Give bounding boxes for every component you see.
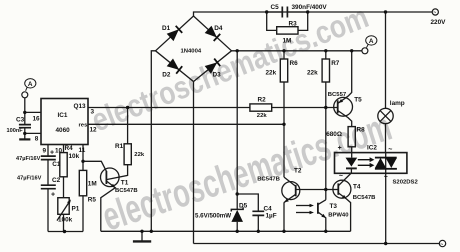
- svg-text:8: 8: [35, 135, 39, 142]
- wire T2 emitter: [284, 194, 296, 231]
- wire R4 to P1: [63, 177, 65, 198]
- resistor R2 box: [250, 104, 272, 111]
- transistor T1 circle: [101, 168, 120, 187]
- wire T4 collector to LED cathode: [338, 173, 351, 186]
- junction pin16 tap: [23, 111, 26, 114]
- svg-text:C5: C5: [271, 4, 280, 11]
- junction D5 branch on A-line: [236, 49, 239, 52]
- wire R7 top stub: [325, 51, 327, 59]
- svg-text:~: ~: [384, 174, 388, 181]
- wire T3 collector diagonal: [318, 200, 326, 205]
- svg-text:3: 3: [91, 108, 95, 115]
- IC2 coupling arrow 1: [358, 159, 371, 161]
- terminal mains bottom right: [439, 240, 445, 246]
- wire C4 branch: [237, 194, 258, 211]
- label A ellipse top-left: [25, 79, 36, 88]
- junction ground symbol tap: [140, 230, 143, 233]
- svg-text:C1: C1: [52, 161, 61, 168]
- IC2 box: [335, 153, 407, 174]
- wire pin9 to C1: [47, 145, 49, 157]
- arrowhead P1 wiper: [67, 199, 71, 204]
- svg-text:~: ~: [339, 173, 343, 180]
- resistor R1 box: [124, 144, 131, 165]
- arrowhead T4 emitter: [342, 195, 347, 199]
- arrowhead light arrow 1: [310, 204, 314, 207]
- zener D5 triangle: [231, 210, 243, 222]
- svg-text:16: 16: [33, 116, 41, 123]
- svg-text:T5: T5: [354, 97, 362, 104]
- wire bridge left vertex to down line: [151, 51, 155, 232]
- diode D3 triangle: [205, 62, 218, 73]
- watermark electroschematics.com lower: [97, 105, 397, 240]
- triac left triangle: [375, 158, 386, 168]
- svg-text:T4: T4: [353, 184, 361, 191]
- svg-text:22k: 22k: [257, 113, 268, 119]
- svg-text:390nF/400V: 390nF/400V: [292, 4, 328, 11]
- diode D2 triangle: [167, 59, 180, 70]
- junction D5 anode on rail: [236, 230, 239, 233]
- capacitor C2 plates: [41, 185, 56, 189]
- wire lamp top: [385, 12, 387, 108]
- svg-text:lamp: lamp: [390, 100, 405, 107]
- wire T4 base: [326, 189, 339, 191]
- svg-text:22k: 22k: [307, 70, 318, 77]
- junction T3 collector node: [324, 188, 327, 191]
- svg-text:1M: 1M: [283, 38, 292, 45]
- wire R6 top stub: [283, 51, 285, 59]
- wire line3 Q13 left segment: [88, 107, 250, 109]
- svg-text:4060: 4060: [56, 127, 71, 134]
- junction R7 bottom on line3: [324, 106, 327, 109]
- terminal A right circle: [362, 48, 368, 54]
- wire C5 right stub: [287, 11, 307, 13]
- arrowhead light arrow 2: [310, 211, 314, 214]
- ground bar under C3: [19, 138, 30, 140]
- arrowhead T2 emitter: [284, 199, 289, 203]
- capacitor C5 plates: [282, 7, 287, 18]
- diode D4 triangle: [205, 26, 217, 38]
- wire T1 base from R5 node: [83, 161, 106, 171]
- svg-text:res: res: [79, 122, 89, 128]
- wire A terminal stem top-left: [24, 98, 26, 125]
- svg-text:22k: 22k: [134, 152, 145, 158]
- svg-text:R3: R3: [289, 21, 298, 28]
- wire C5 left stub: [267, 11, 283, 13]
- svg-text:T3: T3: [330, 203, 338, 210]
- svg-text:D4: D4: [214, 25, 223, 32]
- svg-text:220V: 220V: [431, 19, 447, 26]
- wire lamp to IC2 triac: [385, 124, 387, 153]
- light arrow 2 into T3: [296, 212, 311, 214]
- diode D1 triangle: [167, 29, 179, 41]
- svg-text:47µF/16V: 47µF/16V: [16, 156, 41, 162]
- diode bridge diamond wires: [156, 16, 232, 82]
- svg-text:R1: R1: [115, 143, 124, 150]
- transistor T5 base bar: [337, 100, 339, 113]
- wire pin16: [25, 111, 41, 113]
- wire T3 emitter: [318, 212, 326, 231]
- junction C5 right on top rail: [306, 10, 309, 13]
- svg-text:47µF/16V: 47µF/16V: [17, 176, 42, 182]
- svg-text:BC557: BC557: [328, 92, 347, 98]
- svg-text:R6: R6: [290, 60, 299, 67]
- wire T2 collector diagonal: [284, 177, 296, 186]
- svg-text:12: 12: [90, 127, 98, 134]
- svg-text:5.6V/500mW: 5.6V/500mW: [195, 213, 231, 220]
- wire pin8: [25, 132, 41, 134]
- wire R3 parallel loop: [267, 12, 308, 30]
- junction R1 on line3: [126, 106, 129, 109]
- junction D5 cathode node: [236, 192, 239, 195]
- resistor R3 box: [277, 27, 298, 34]
- svg-text:9: 9: [43, 148, 47, 155]
- wire P1 bottom: [63, 214, 65, 231]
- svg-text:1N4004: 1N4004: [181, 48, 202, 54]
- lamp X: [380, 111, 391, 122]
- wire line4 res pin12: [88, 123, 284, 125]
- phototransistor T3 bar: [317, 203, 319, 214]
- IC2 LED cathode bar: [346, 167, 357, 169]
- wire C2 bottom to rail stub: [47, 189, 49, 232]
- ground symbol stem: [141, 231, 143, 240]
- wire R7 bottom to line3: [325, 82, 327, 108]
- svg-text:T2: T2: [294, 168, 302, 175]
- junction T2 emitter on rail: [282, 230, 285, 233]
- wire T4 emitter to rail end: [338, 193, 350, 231]
- label A ellipse right: [366, 36, 377, 45]
- svg-text:A: A: [369, 38, 374, 45]
- svg-text:~: ~: [433, 10, 436, 16]
- wire mains return bottom line: [194, 243, 440, 245]
- junction R7 on A-line: [324, 49, 327, 52]
- svg-text:10: 10: [55, 148, 63, 155]
- svg-text:C2: C2: [52, 177, 61, 184]
- wire pin11 down: [82, 145, 84, 171]
- wire line3 right segment to T5 base: [272, 107, 338, 109]
- wire T5 emitter up to A-line: [338, 51, 352, 104]
- junction P1 on ground stub: [63, 230, 66, 233]
- wire top rail: [194, 12, 433, 16]
- svg-text:1M: 1M: [88, 181, 97, 188]
- triac bottom bar: [375, 168, 397, 170]
- svg-text:T1: T1: [121, 180, 129, 187]
- svg-text:BC547B: BC547B: [115, 188, 138, 194]
- arrowhead T5 emitter (PNP into bar): [339, 99, 344, 103]
- triac right triangle: [386, 158, 397, 168]
- svg-text:Q13: Q13: [74, 103, 87, 110]
- svg-text:BPW40: BPW40: [328, 213, 349, 219]
- resistor R6 box: [280, 59, 287, 82]
- junction R6 on A-line: [282, 49, 285, 52]
- wire C4 bottom: [257, 216, 259, 232]
- svg-text:BC547B: BC547B: [353, 195, 376, 201]
- wire triac output down to mains line: [385, 173, 387, 243]
- terminal A top-left circle: [22, 92, 28, 98]
- wire T5 collector to R8: [338, 111, 352, 127]
- svg-text:C4: C4: [264, 206, 273, 213]
- wire R6 bottom to line4 and T2 collector: [283, 82, 285, 177]
- lamp circle: [378, 108, 393, 123]
- wire ground rail left stub: [48, 231, 83, 233]
- svg-text:~: ~: [388, 146, 392, 153]
- svg-text:IC2: IC2: [367, 144, 377, 151]
- IC1 box: [41, 99, 88, 145]
- svg-text:S202DS2: S202DS2: [393, 180, 419, 186]
- wire A-line right of bridge: [232, 50, 362, 52]
- junction pin8 tap: [23, 132, 26, 135]
- wire zener anode to ground rail: [236, 222, 238, 232]
- potentiometer P1 arrow line: [57, 201, 70, 221]
- svg-text:+: +: [51, 192, 55, 199]
- junction T1 base tap on pin11 wire: [81, 160, 84, 163]
- wire C1 to C2: [47, 160, 49, 186]
- transistor T1 base bar: [105, 171, 107, 184]
- svg-text:R5: R5: [88, 197, 97, 204]
- resistor R4 box: [60, 153, 67, 177]
- transistor T4 base bar: [337, 183, 339, 194]
- svg-text:D5: D5: [239, 203, 248, 210]
- resistor R5 box: [79, 170, 86, 195]
- transistor T4 circle: [333, 180, 351, 198]
- watermark electroschematics.com upper: [87, 0, 374, 139]
- svg-text:P1: P1: [72, 206, 80, 213]
- svg-text:1µF: 1µF: [266, 213, 277, 220]
- svg-text:100nF: 100nF: [7, 128, 24, 134]
- wire T1 emitter down: [101, 181, 116, 231]
- ground symbol bar: [133, 240, 151, 242]
- arrowhead T1 emitter: [111, 184, 116, 188]
- svg-text:BC547B: BC547B: [257, 177, 280, 183]
- wire C3 bottom stem: [24, 128, 26, 139]
- junction T3 emitter on rail: [324, 230, 327, 233]
- transistor T5 circle: [334, 97, 353, 116]
- transistor T2 base bar: [295, 185, 297, 196]
- wire LED cathode down: [350, 168, 352, 173]
- junction triac output on mains return: [384, 242, 387, 245]
- wire R5 bottom: [82, 196, 84, 232]
- svg-text:680Ω: 680Ω: [326, 131, 342, 138]
- arrowhead T3 emitter: [321, 214, 326, 218]
- wire triac vertical inside IC2: [385, 153, 387, 174]
- svg-text:100k: 100k: [58, 217, 73, 224]
- junction T5 emitter on A-line: [350, 49, 353, 52]
- wire D5 vertical from A-line: [236, 51, 238, 210]
- junction lamp branch on top rail: [384, 10, 387, 13]
- svg-text:11: 11: [79, 147, 86, 154]
- svg-text:R4: R4: [65, 145, 74, 152]
- resistor R7 box: [322, 59, 329, 82]
- junction C5 left on top rail: [265, 10, 268, 13]
- capacitor C3 plates: [19, 125, 31, 128]
- LED triangle inside IC2: [346, 158, 358, 167]
- svg-text:R8: R8: [357, 127, 366, 134]
- capacitor C1 plates: [41, 156, 56, 160]
- capacitor C4 plates: [252, 211, 264, 215]
- wire R1 top: [127, 108, 129, 144]
- svg-text:R2: R2: [258, 97, 267, 104]
- wire bridge bottom vertex down to mains return: [193, 82, 195, 244]
- wire R1 bottom to T1 collector: [106, 165, 127, 180]
- svg-text:D1: D1: [162, 25, 171, 32]
- potentiometer P1 box: [58, 198, 69, 215]
- junction bridge minus on rail: [150, 230, 153, 233]
- resistor R8 box: [348, 127, 355, 147]
- svg-text:A: A: [28, 81, 33, 88]
- triac top bar: [375, 157, 397, 159]
- svg-text:22k: 22k: [266, 70, 277, 77]
- svg-text:R7: R7: [331, 60, 340, 67]
- wire node vertical line3 to T3: [325, 108, 327, 200]
- junction R6 bottom on line4: [282, 123, 285, 126]
- transistor T2 circle: [282, 182, 300, 200]
- zener diode D5 cathode bar: [231, 207, 243, 211]
- terminal 220V top right: [432, 9, 438, 15]
- svg-text:~: ~: [440, 242, 443, 248]
- svg-text:D3: D3: [213, 72, 222, 79]
- svg-text:D2: D2: [162, 72, 171, 79]
- svg-text:C3: C3: [16, 117, 25, 124]
- svg-text:+: +: [50, 150, 54, 157]
- wire ground rail main: [101, 230, 351, 232]
- wire T2 base to node: [296, 189, 326, 191]
- junction C4 on rail: [257, 230, 260, 233]
- svg-text:10k: 10k: [69, 153, 80, 160]
- svg-text:IC1: IC1: [58, 112, 68, 119]
- light arrow 1 into T3: [296, 205, 311, 207]
- IC2 coupling arrow 2: [358, 164, 371, 166]
- svg-text:+: +: [338, 145, 342, 152]
- wire pin10 to R4: [63, 145, 65, 153]
- wire R8 to IC2 LED anode: [351, 147, 353, 158]
